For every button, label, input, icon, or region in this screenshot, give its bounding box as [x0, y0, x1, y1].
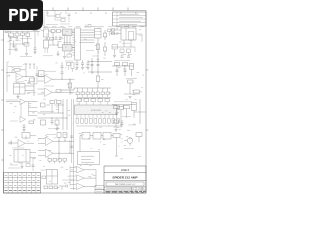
wire [129, 83, 131, 94]
capacitor C14 [61, 67, 63, 72]
capacitor C17 [87, 60, 89, 63]
text [46, 24, 58, 26]
resistor R19 [91, 92, 94, 95]
resistor R76 [67, 63, 71, 66]
resistor R16 [76, 92, 79, 95]
wire bottom bus [76, 125, 121, 127]
capacitor C23 [51, 118, 53, 121]
wire [46, 11, 48, 17]
text [65, 60, 73, 62]
wire [138, 137, 140, 143]
op-amp U10B [46, 149, 54, 158]
wire [47, 175, 58, 177]
resistor R71 [61, 19, 65, 22]
capacitor C47 [85, 24, 87, 28]
wire verticals [62, 99, 64, 130]
resistor R81 [33, 28, 37, 31]
PDF badge label letter F [31, 9, 38, 21]
wire stub top [128, 25, 130, 29]
wire [77, 97, 111, 99]
wire [134, 47, 136, 52]
text [12, 147, 24, 149]
wire outputs [84, 169, 96, 171]
wire [116, 138, 118, 157]
border zone numbers [47, 12, 137, 14]
wire vertical [44, 48, 46, 53]
amplifier block A1 [78, 152, 100, 165]
capacitor C13 [61, 62, 63, 66]
wire [115, 123, 117, 129]
resistor R63 [49, 186, 53, 189]
capacitor C2 [16, 36, 18, 39]
table text marks [5, 175, 40, 185]
capacitor C21 [124, 69, 127, 71]
capacitor C22 [23, 124, 25, 126]
capacitor C6 [121, 55, 124, 57]
capacitor C16 [82, 60, 84, 63]
wire [95, 170, 97, 187]
filter block FL1 [82, 133, 90, 140]
transformer T1 primary [44, 29, 49, 37]
info row2 text [106, 190, 146, 192]
ground [13, 40, 15, 46]
wire [79, 136, 81, 152]
resistor R43 [112, 119, 115, 124]
wire drop from top border [43, 12, 45, 28]
wire [66, 36, 68, 45]
resistor R75 [30, 78, 35, 81]
wire [51, 104, 53, 114]
wire [46, 33, 48, 40]
text [10, 120, 18, 122]
revision table text [119, 13, 139, 15]
transformer T2 [14, 150, 30, 163]
resistor R8 [14, 69, 20, 72]
op-amp U9A [18, 140, 25, 148]
resistor R18 [86, 92, 89, 95]
resistor R7 [127, 49, 131, 53]
op-amp U11A [77, 167, 85, 174]
regulator U3 [63, 45, 73, 52]
transformer T1 secondary [44, 40, 49, 48]
wire AC mains bus [5, 29, 40, 31]
capacitor C12 [28, 80, 30, 83]
diode D7 [57, 101, 62, 104]
wire [114, 49, 116, 55]
resistor R62 [44, 186, 48, 189]
wire drops from mains bus [10, 31, 12, 33]
switch SW1 [15, 33, 19, 36]
wire [38, 88, 45, 90]
resistor R21 [101, 92, 104, 95]
capacitor C24 [77, 99, 82, 102]
capacitor C4 [55, 36, 57, 38]
border zone tick marks left [1, 39, 3, 41]
wire [69, 79, 71, 95]
resistor R45 [114, 106, 120, 109]
rectifier D1 [51, 30, 55, 33]
op-amp U7B [20, 117, 26, 123]
wire outputs [53, 140, 74, 142]
resistor R83 [108, 29, 112, 32]
resistor R44 [118, 107, 124, 110]
resistor R72 [24, 43, 29, 47]
capacitor C15 [76, 60, 78, 63]
capacitor C32 [64, 138, 66, 142]
op-amp U7A [20, 99, 26, 105]
text [44, 70, 56, 72]
title block outline [104, 166, 146, 193]
wire long vertical bus 2 [73, 99, 75, 190]
DSP IC U8 [75, 105, 118, 115]
resistor R15 [96, 76, 100, 82]
title block row lines [104, 171, 146, 173]
text [40, 110, 54, 112]
capacitor C28 [105, 99, 110, 102]
resistor R64 [54, 186, 58, 189]
resistor R28 [29, 121, 34, 124]
wire [121, 53, 123, 57]
op-amp U10A [46, 137, 54, 146]
resistor R73 [50, 37, 54, 40]
wire [38, 76, 45, 78]
text [76, 98, 108, 100]
wire [124, 93, 140, 95]
resistor R70 [56, 14, 60, 17]
wire [47, 104, 51, 106]
wire [69, 166, 71, 186]
ground [17, 94, 19, 97]
wire [8, 142, 18, 144]
capacitor C3 [34, 47, 37, 49]
ground [128, 96, 131, 98]
resistor R77 [26, 164, 30, 167]
text [46, 134, 56, 136]
capacitor C29 [115, 112, 118, 114]
relay K2 [14, 84, 26, 95]
resistor R10 [39, 71, 45, 77]
wire [120, 110, 122, 128]
resistor R35 [76, 119, 79, 124]
wire [134, 111, 146, 113]
regulator U2 [63, 29, 73, 36]
IC U4 [75, 28, 81, 60]
resistor R30 [41, 103, 46, 107]
wire [68, 15, 70, 22]
wire output [52, 78, 75, 80]
diode D4 [104, 47, 107, 51]
wire [69, 52, 71, 56]
net name labels band [6, 26, 144, 28]
resistor R32 [55, 120, 59, 125]
fuse F2 [112, 29, 115, 31]
wire [55, 30, 57, 32]
ground [20, 166, 23, 168]
wire inputs [38, 138, 45, 140]
wire [136, 33, 142, 35]
resistor R42 [108, 119, 111, 124]
capacitor C31 [9, 142, 11, 145]
op-amp U11C [77, 183, 85, 190]
capacitor C25 [84, 99, 89, 102]
capacitor C20 [116, 69, 119, 71]
resistor R22 [106, 92, 109, 95]
wire [65, 11, 67, 15]
ground [57, 51, 59, 54]
resistor R39 [94, 119, 97, 124]
wire chain [80, 135, 82, 137]
PDF badge label letter P [9, 9, 18, 21]
net label row [8, 27, 34, 29]
resistor R26 [134, 90, 140, 93]
transistor Q1 [127, 138, 133, 144]
IC U4 right pin bus wires [81, 29, 95, 31]
capacitor C40 [68, 13, 71, 15]
diode D8 [132, 103, 137, 111]
junction [51, 117, 54, 120]
varistor RV1 [26, 33, 30, 37]
resistor R52 [57, 133, 61, 138]
resistor R44 [117, 119, 120, 124]
svg-text:SPIDER 212 AMP: SPIDER 212 AMP [112, 175, 137, 179]
diode D9 [112, 45, 118, 50]
text [114, 25, 130, 27]
ground [114, 129, 117, 131]
svg-text:THE POWER LOGIC LLC: THE POWER LOGIC LLC [115, 184, 136, 186]
wire long vertical bus [71, 99, 73, 163]
resistor R20 [96, 92, 99, 95]
connector J1 [5, 27, 8, 33]
wire [36, 66, 38, 84]
wire outputs to right [26, 101, 38, 103]
resistor R37 [85, 119, 88, 124]
wire vertical right [69, 141, 71, 153]
wire inputs [70, 167, 76, 169]
op-amp U6A [45, 75, 53, 84]
capacitor C5 [59, 36, 61, 38]
op-amp U11B [77, 175, 85, 182]
resistor R38 [90, 119, 93, 124]
resistor R5 [96, 44, 100, 50]
text [84, 26, 102, 28]
revision table [113, 12, 147, 26]
resistor R74 [67, 54, 72, 57]
border zone tick marks right [146, 69, 148, 71]
resistor R23 [115, 63, 120, 66]
junction [91, 60, 94, 63]
capacitor C19 [97, 64, 100, 66]
ground [56, 125, 58, 129]
wire [59, 185, 66, 187]
text row [8, 37, 18, 39]
wire long drop [9, 40, 11, 55]
wire input [6, 72, 16, 74]
resistor R82 [88, 25, 91, 28]
resistor R54 [48, 159, 52, 162]
capacitor C44 [70, 135, 73, 137]
op-amp U6B [45, 88, 53, 97]
resistor R12 [68, 83, 72, 88]
wire [32, 158, 34, 171]
wire [68, 66, 70, 71]
wire drops [116, 66, 118, 77]
resistor R80 [42, 176, 46, 179]
wire output [52, 91, 75, 93]
svg-text:LINE 6: LINE 6 [121, 168, 130, 172]
capacitor C30 [121, 120, 123, 123]
svg-text:KORG DSP: KORG DSP [91, 110, 102, 112]
transformer T3 [121, 28, 136, 40]
info row text [106, 188, 134, 190]
resistor R55 [53, 159, 57, 162]
capacitor C7 [127, 55, 130, 57]
connector pin table [4, 173, 41, 194]
wire bus [112, 46, 135, 48]
wire [112, 104, 136, 106]
supply rail stubs [25, 64, 27, 69]
wire [21, 162, 23, 166]
text [27, 92, 36, 94]
resistor R60 [113, 134, 120, 138]
wire [22, 36, 24, 44]
fuse F1 [9, 33, 14, 37]
wire out [72, 31, 75, 33]
text [8, 66, 22, 68]
ground [64, 36, 66, 45]
text [10, 164, 18, 166]
component value labels speckle [7, 27, 144, 188]
transformer T3 core [125, 28, 127, 40]
wire [41, 169, 47, 171]
capacitor C45 [70, 145, 73, 147]
rectifier D2 [57, 30, 61, 33]
resistor R6 [120, 49, 124, 53]
sheet border frame [4, 11, 147, 194]
wire [40, 30, 44, 32]
diode D5 [130, 64, 134, 70]
wire [54, 11, 56, 21]
wire [8, 167, 20, 169]
wire [25, 142, 34, 144]
filter block FL2 [93, 133, 101, 140]
filter block FL3 [103, 133, 111, 140]
resistor R11 [56, 90, 61, 92]
capacitor C35 [65, 185, 67, 188]
subtitle box [106, 182, 144, 186]
capacitor C41 [15, 44, 17, 49]
wire [112, 65, 134, 67]
wire vertical [52, 33, 54, 46]
capacitor C18 [91, 64, 94, 66]
capacitor C46 [32, 164, 35, 166]
fuse F3 [112, 32, 115, 34]
resistor R56 [58, 159, 62, 162]
wire supply [61, 73, 63, 79]
resistor R1 [21, 33, 25, 36]
wire [38, 112, 64, 114]
wire feedback [12, 70, 14, 73]
capacitor C26 [91, 99, 96, 102]
wire [97, 38, 99, 60]
wire long [60, 88, 111, 90]
resistor R57 [63, 159, 67, 162]
wire drops [123, 40, 125, 47]
text labels [44, 26, 66, 28]
wire [10, 43, 24, 45]
wire [37, 31, 39, 36]
IC U4 left pin stubs [73, 29, 75, 31]
ground [25, 53, 28, 55]
diode D3 [104, 33, 107, 37]
wire input line [6, 101, 20, 103]
text [86, 50, 94, 52]
resistor R17 [81, 92, 84, 95]
resistor R61 [136, 133, 142, 137]
wire rails [91, 58, 93, 74]
filter block FB1 [95, 29, 102, 39]
text [114, 60, 130, 62]
wire input pair [110, 29, 121, 31]
resistor R25 [128, 80, 134, 83]
border zone tick marks top [52, 8, 54, 11]
wire [28, 102, 30, 116]
text [114, 101, 132, 103]
amplifier block A1 label text [81, 155, 94, 157]
resistor R50 [22, 133, 30, 139]
resistor R41 [103, 119, 106, 124]
resistor R31 [41, 120, 46, 125]
text [124, 148, 134, 150]
resistor R47 [114, 120, 119, 123]
PDF file type badge [0, 0, 43, 30]
wire [108, 32, 110, 37]
IC U8 bottom pins [76, 115, 78, 119]
ground [113, 55, 116, 57]
resistor R24 [123, 63, 128, 66]
wire [139, 99, 141, 124]
wire [64, 52, 66, 57]
wire [30, 135, 36, 137]
transformer T3 secondary box [129, 32, 134, 41]
doc number cells [95, 186, 104, 190]
wire [30, 152, 36, 154]
wire drops [116, 109, 118, 118]
op-amp U5A [16, 73, 23, 81]
junction [52, 44, 55, 47]
capacitor C27 [98, 99, 103, 102]
wire output [23, 76, 34, 78]
resistor R46 [124, 106, 130, 109]
resistor R53 [63, 133, 67, 138]
wire vertical [58, 138, 60, 161]
resistor R40 [99, 119, 102, 124]
diode D10 [71, 63, 74, 69]
wire [26, 46, 28, 53]
text [8, 49, 17, 51]
capacitor C42 [36, 73, 39, 75]
text [43, 55, 53, 57]
resistor R36 [81, 119, 84, 124]
connector J2 [47, 170, 58, 185]
ground [23, 127, 25, 129]
wire left rail [6, 62, 8, 92]
wire [25, 85, 34, 87]
capacitor C1 [10, 37, 12, 40]
diode D6 [50, 101, 55, 104]
PDF badge label letter D [20, 9, 29, 21]
